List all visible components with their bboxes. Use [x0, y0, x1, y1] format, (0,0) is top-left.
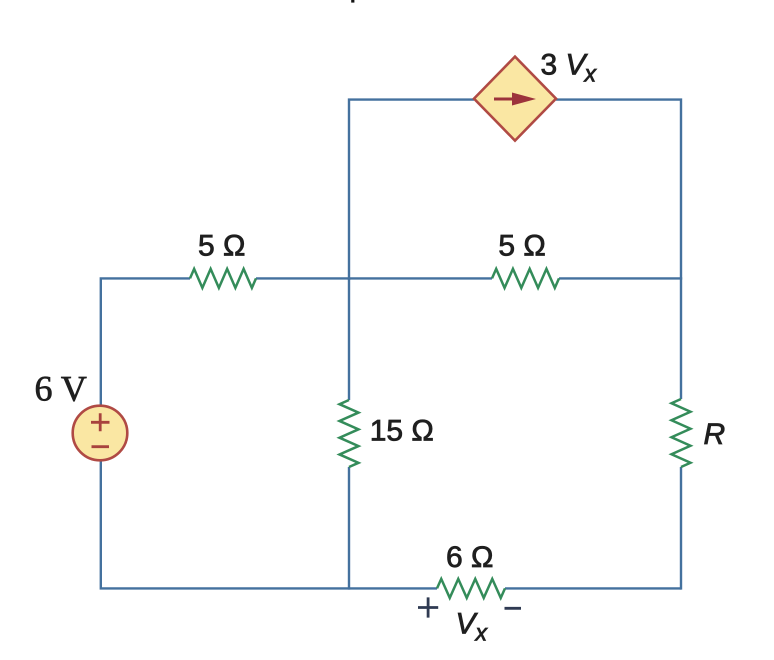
- resistor 5 ohm (top right): [492, 269, 559, 288]
- voltage source 6V (circle): [73, 406, 128, 461]
- label 5 ohm (top right): [498, 230, 545, 263]
- current source arrow: [494, 93, 536, 106]
- polarity plus (left of 6 ohm): [418, 597, 438, 617]
- wire: middle horizontal between the two 5ohm resistors: [256, 277, 492, 279]
- stray text fragment at top edge: [351, 0, 354, 3]
- wire: left vertical below source + bottom-left horizontal to 6ohm resistor: [101, 459, 437, 588]
- wire: right vertical below R to bottom-right corner: [680, 467, 682, 590]
- resistor R (right vertical): [672, 399, 691, 467]
- label 3 Vx: [541, 49, 598, 87]
- wire: middle horizontal right of second 5ohm resistor to right rail: [559, 277, 682, 279]
- svg-text:Vx: Vx: [456, 608, 489, 646]
- label Vx (below 6 ohm): [456, 608, 489, 646]
- resistor 5 ohm (top left): [190, 269, 256, 288]
- label 6 V: [35, 369, 87, 409]
- label 15 ohm: [370, 415, 434, 448]
- polarity minus (right of 6 ohm): [505, 607, 522, 610]
- label 6 ohm: [446, 541, 493, 574]
- svg-text:5 Ω: 5 Ω: [498, 230, 545, 263]
- label 5 ohm (top left): [198, 230, 245, 263]
- dependent current source 3Vx (diamond): [474, 57, 556, 141]
- wire: top horizontal right of current source + right vertical to R: [556, 100, 681, 399]
- svg-text:6 V: 6 V: [35, 369, 87, 409]
- resistor 15 ohm (middle vertical): [340, 400, 359, 467]
- svg-text:5 Ω: 5 Ω: [198, 230, 245, 263]
- wire: middle vertical below 15ohm resistor: [348, 278, 350, 590]
- label R: [704, 418, 726, 451]
- svg-text:15 Ω: 15 Ω: [370, 415, 434, 448]
- svg-text:R: R: [704, 418, 726, 451]
- svg-text:3 Vx: 3 Vx: [541, 49, 598, 87]
- wire: middle vertical top + top horizontal to current source: [349, 100, 474, 400]
- wire: bottom horizontal right of 6ohm resistor to bottom-right corner: [505, 587, 681, 589]
- plus sign inside source: [91, 413, 110, 431]
- minus sign inside source: [92, 445, 110, 448]
- svg-text:6 Ω: 6 Ω: [446, 541, 493, 574]
- wire: left vertical top + top-left horizontal to 5ohm resistor: [101, 278, 190, 406]
- resistor 6 ohm (bottom): [437, 579, 505, 598]
